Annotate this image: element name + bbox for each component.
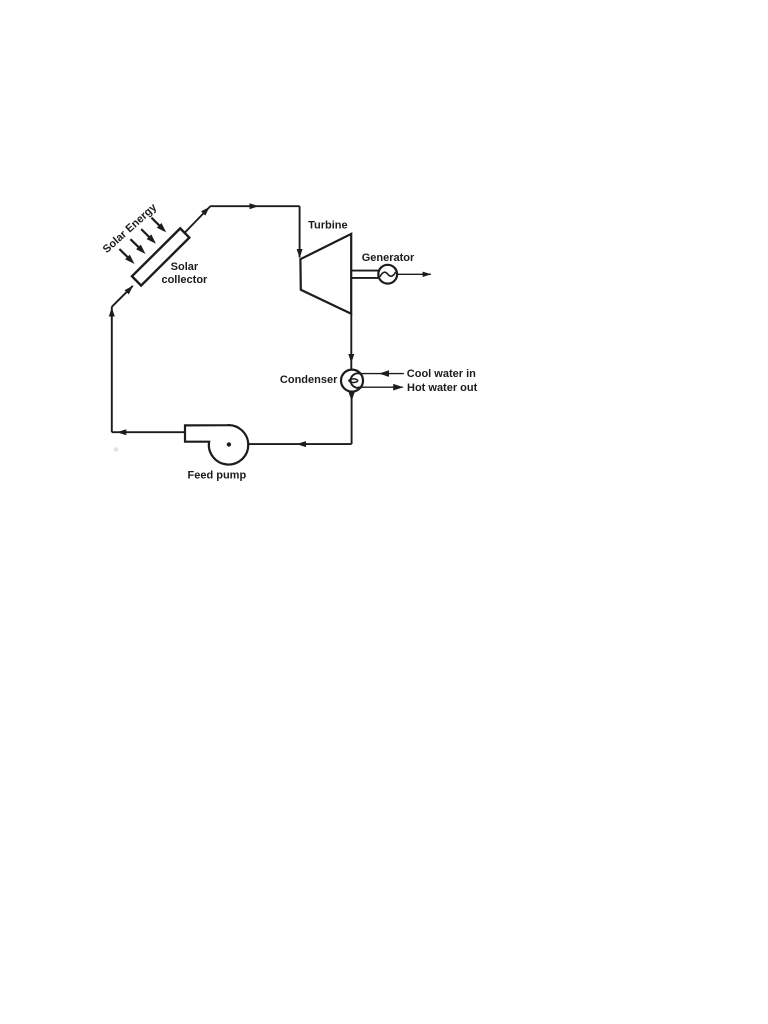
svg-text:Hot water out: Hot water out	[407, 382, 478, 394]
generator shaft leads	[351, 270, 378, 272]
arrow left on pump inlet wire	[117, 429, 127, 435]
solar energy arrow 3	[141, 229, 150, 238]
arrow left cool water	[379, 370, 389, 377]
solar energy arrow 1	[119, 249, 128, 258]
turbine T1	[300, 234, 351, 314]
generator output wire	[397, 273, 431, 275]
arrow up on riser	[109, 308, 115, 317]
feed pump P1 volute	[185, 425, 248, 464]
wire top horizontal (collector to turbine)	[210, 205, 300, 207]
arrow down to condenser	[348, 354, 354, 363]
arrow down into turbine	[297, 249, 303, 258]
hot water out line	[358, 386, 403, 388]
svg-text:Condenser: Condenser	[280, 374, 338, 386]
wire diagonal riser to collector	[112, 286, 133, 307]
solar collector SC1	[132, 228, 189, 285]
arrow up-right after collector	[201, 207, 210, 216]
wire turbine to condenser	[350, 314, 352, 370]
wire vertical into turbine	[299, 206, 301, 257]
arrow right hot water	[393, 384, 403, 391]
feed pump center dot	[227, 442, 231, 446]
solar energy arrow 2	[130, 239, 139, 248]
wire pump inlet left	[112, 431, 185, 433]
svg-text:Turbine: Turbine	[308, 220, 348, 232]
wire left vertical riser	[111, 307, 113, 432]
wire diagonal collector to top	[185, 206, 210, 232]
svg-text:collector: collector	[161, 274, 208, 286]
generator G1 circle	[378, 265, 397, 284]
wire bottom right (condenser to pump)	[248, 443, 352, 445]
solar energy arrow 4	[151, 218, 160, 227]
condenser coil	[351, 373, 362, 388]
wire condenser down	[351, 392, 353, 444]
arrow down below condenser	[349, 392, 355, 401]
arrow right generator output	[423, 272, 432, 277]
svg-text:Solar: Solar	[171, 261, 199, 273]
svg-text:Feed pump: Feed pump	[188, 470, 247, 482]
arrow up-right to collector	[125, 286, 134, 295]
condenser coil center loop	[349, 379, 358, 383]
arrow left on bottom right wire	[297, 441, 307, 447]
condenser circle	[341, 370, 363, 392]
svg-text:Generator: Generator	[362, 252, 415, 264]
generator sine symbol	[380, 272, 396, 277]
cool water in line	[358, 373, 404, 375]
arrow right on top wire	[250, 203, 259, 209]
svg-text:Cool water in: Cool water in	[407, 368, 476, 380]
scan smudge	[114, 447, 119, 452]
